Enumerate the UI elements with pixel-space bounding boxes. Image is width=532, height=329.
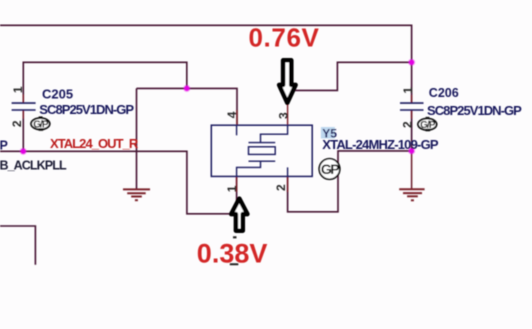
wire C206 bottom to gnd node xyxy=(411,110,413,151)
pin stub C205 pin2 xyxy=(22,110,24,118)
svg-text:1: 1 xyxy=(11,86,25,93)
pin stub Y5 pin2 xyxy=(287,176,289,192)
wire from node to crystal pin 3 xyxy=(288,62,412,90)
junction node gnd loop left xyxy=(183,85,190,92)
svg-text:2: 2 xyxy=(10,120,24,127)
svg-text:SC8P25V1DN-GP: SC8P25V1DN-GP xyxy=(427,103,522,118)
svg-text:XTAL24_OUT_R: XTAL24_OUT_R xyxy=(50,136,139,151)
GP marking C205 xyxy=(31,116,50,130)
pin stub Y5 pin4 xyxy=(236,110,238,125)
pin stub C205 pin1 xyxy=(22,95,24,103)
GP marking C206 xyxy=(418,117,437,131)
GP logo crystal xyxy=(319,159,340,180)
wire XTAL24_OUT_R net xyxy=(0,151,237,214)
svg-text:B_ACLKPLL: B_ACLKPLL xyxy=(0,158,67,172)
wire gnd node down to ground xyxy=(411,151,413,189)
wire gnd branch down to ground symbol xyxy=(136,88,138,188)
svg-text:1: 1 xyxy=(401,87,415,94)
crystal Y5 body xyxy=(211,125,312,176)
svg-text:GP: GP xyxy=(321,161,339,177)
svg-text:P: P xyxy=(0,138,8,152)
wire C206 top stub xyxy=(411,62,413,103)
svg-text:2: 2 xyxy=(401,121,415,128)
pin stub C206 pin1 xyxy=(411,95,413,103)
ground left xyxy=(123,189,150,200)
wire pin3 vertical xyxy=(287,90,289,125)
probe arrow up at pin 1 xyxy=(231,199,247,231)
junction node at C206 bottom / gnd xyxy=(408,147,415,154)
svg-text:2: 2 xyxy=(274,184,288,191)
svg-text:G/P: G/P xyxy=(420,120,436,131)
svg-text:4: 4 xyxy=(225,111,239,118)
wire bottom-left stub xyxy=(0,226,35,265)
svg-text:0.76V: 0.76V xyxy=(249,23,320,53)
probe arrow down at pin 3 xyxy=(279,60,296,103)
svg-text:3: 3 xyxy=(277,112,291,119)
artifact dash below 0.38V xyxy=(230,263,239,265)
pin stub C206 pin2 xyxy=(411,110,413,118)
capacitor C205 xyxy=(12,103,36,110)
crystal Y5 internal symbol xyxy=(237,125,288,176)
wire C205 pin2 branch xyxy=(22,110,24,151)
artifact tick below arrow shaft xyxy=(233,236,237,238)
svg-text:C206: C206 xyxy=(429,86,459,100)
wire gnd node left loop to crystal pin 2 xyxy=(288,151,412,212)
pin stub Y5 pin1 xyxy=(236,176,238,192)
svg-text:SC8P25V1DN-GP: SC8P25V1DN-GP xyxy=(39,102,134,117)
junction node C205 pin2 / out net xyxy=(20,148,27,155)
capacitor C206 xyxy=(400,103,424,110)
svg-text:1: 1 xyxy=(225,185,239,192)
svg-text:C205: C205 xyxy=(42,87,73,102)
svg-text:XTAL-24MHZ-109-GP: XTAL-24MHZ-109-GP xyxy=(322,137,439,152)
junction node at C206 top xyxy=(408,59,415,66)
wire gnd branch horizontal to pin 4 xyxy=(137,88,238,125)
wire gnd loop top-left C205 pin1 xyxy=(23,62,187,103)
ground right xyxy=(399,189,424,200)
wire top rail XTAL24 IN net xyxy=(0,25,412,62)
svg-text:G/P: G/P xyxy=(33,119,49,130)
Y5 refdes highlight xyxy=(321,127,335,139)
